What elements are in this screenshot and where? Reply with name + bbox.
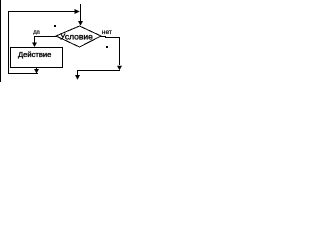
- arrowhead down from action box to loop line: [34, 69, 39, 74]
- wire: нет branch horizontal row 37: [100, 36, 106, 37]
- wire: да branch vertical col 34: [34, 36, 35, 43]
- wire: loop-back bottom horizontal row 73: [8, 73, 38, 74]
- wire: нет branch vertical col 119: [119, 37, 120, 65]
- wire: loop-back top horizontal row 11: [8, 11, 75, 12]
- stray dot right: [106, 46, 108, 48]
- wire: entry vertical col 80: [80, 4, 81, 21]
- arrowhead down into action box: [32, 43, 37, 48]
- rectangle Действие: [11, 48, 63, 68]
- arrowhead right into entry line: [75, 9, 80, 14]
- svg-text:нет: нет: [102, 29, 112, 36]
- diamond Условие: [56, 26, 101, 47]
- wire: outer left vertical line: [0, 0, 1, 82]
- wire: loop-back left vertical col 8: [8, 11, 9, 74]
- svg-text:Условие: Условие: [60, 32, 93, 42]
- arrowhead down exit: [75, 75, 80, 80]
- svg-text:да: да: [33, 29, 40, 35]
- svg-text:Действие: Действие: [18, 50, 51, 59]
- background: [0, 0, 129, 92]
- wire: exit vertical col 77: [77, 70, 78, 76]
- wire: bottom-right horizontal row 70: [77, 70, 120, 71]
- arrowhead down at нет corner: [117, 66, 122, 71]
- arrowhead down into diamond top: [78, 21, 83, 26]
- stray dot left: [54, 25, 56, 27]
- wire: action-to-loop connector col 36: [36, 68, 37, 73]
- wire: да branch horizontal row 36: [34, 36, 57, 37]
